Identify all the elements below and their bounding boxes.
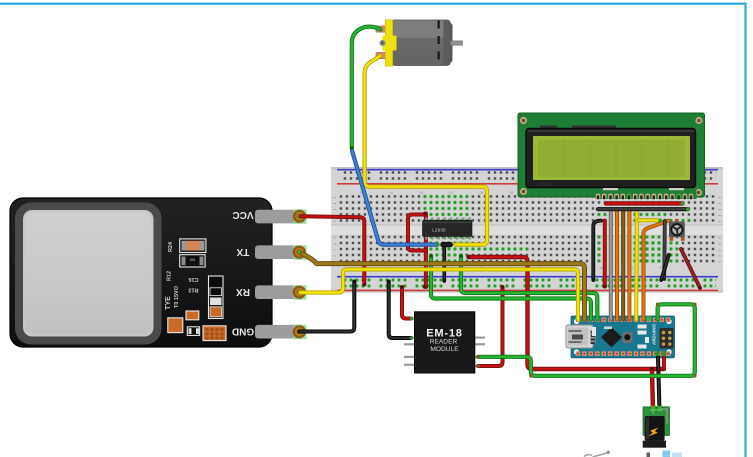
svg-text:RX: RX <box>236 286 250 297</box>
svg-text:C16: C16 <box>188 276 198 282</box>
svg-text:GND: GND <box>232 326 254 337</box>
svg-text:25: 25 <box>479 191 483 195</box>
svg-text:R12: R12 <box>167 271 173 281</box>
svg-text:45: 45 <box>599 266 603 270</box>
svg-text:R13: R13 <box>188 287 198 293</box>
svg-text:VCC: VCC <box>232 209 253 220</box>
svg-text:30: 30 <box>509 191 513 195</box>
svg-text:READER: READER <box>430 339 458 346</box>
svg-text:L293D: L293D <box>432 228 446 234</box>
svg-text:96t: 96t <box>189 258 195 263</box>
svg-text:TX: TX <box>236 246 249 257</box>
svg-text:20: 20 <box>449 191 453 195</box>
svg-text:TYE: TYE <box>165 296 172 310</box>
svg-text:15: 15 <box>419 191 423 195</box>
svg-text:ARDUINO: ARDUINO <box>652 324 657 345</box>
svg-text:10: 10 <box>389 191 393 195</box>
svg-text:R24: R24 <box>168 241 174 252</box>
svg-text:T0 15VO: T0 15VO <box>174 285 180 308</box>
svg-text:MODULE: MODULE <box>430 346 459 353</box>
